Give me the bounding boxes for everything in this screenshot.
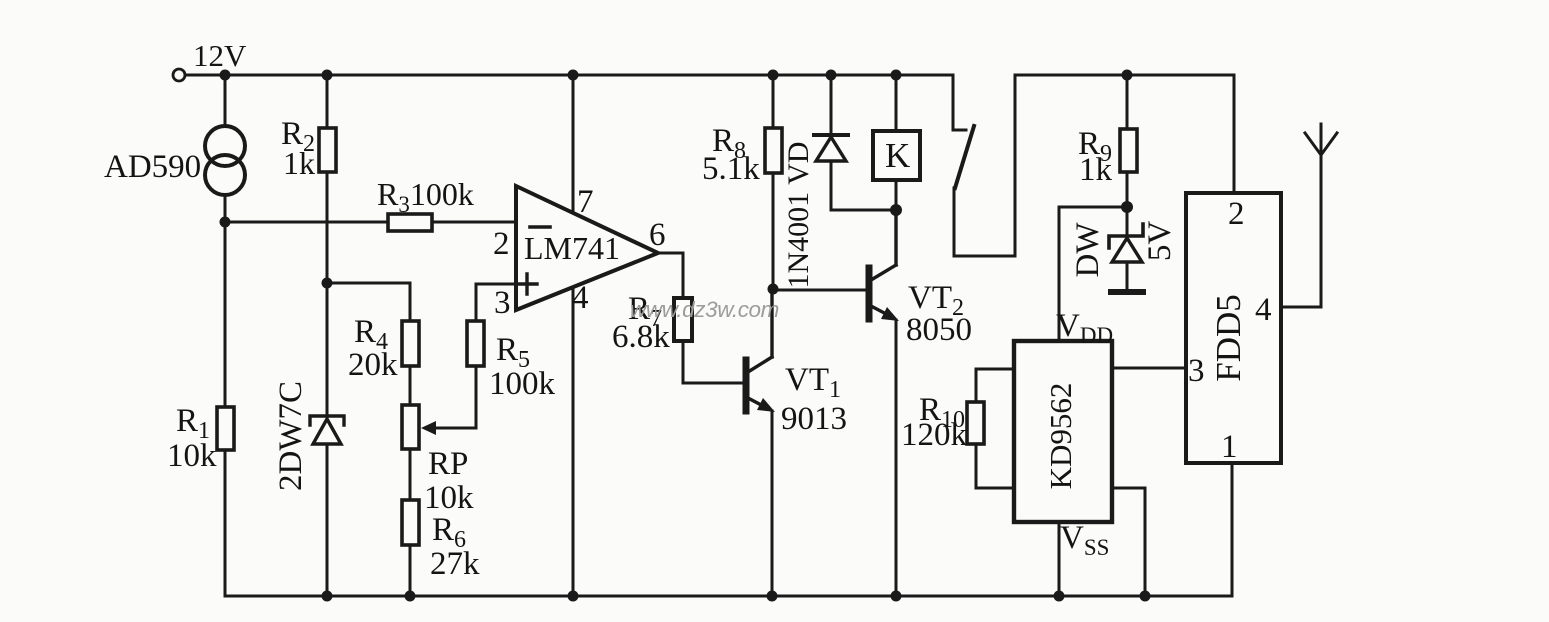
wire DW anode xyxy=(1126,262,1129,290)
node dot rail pin4 xyxy=(568,591,579,602)
wire VSS to bottom rail xyxy=(1112,488,1145,596)
transistor VT2 emitter xyxy=(871,306,890,316)
wire R8 column xyxy=(772,75,775,289)
svg-text:5.1k: 5.1k xyxy=(702,151,760,187)
svg-text:1k: 1k xyxy=(1079,152,1113,188)
transistor VT1 emitter xyxy=(748,398,767,408)
node dot rail VD xyxy=(826,70,837,81)
svg-text:DW: DW xyxy=(1070,222,1106,278)
node dot rail R6 xyxy=(405,591,416,602)
potentiometer RP wiper arrowhead xyxy=(421,421,436,435)
node dot rail K xyxy=(891,70,902,81)
svg-text:2: 2 xyxy=(493,226,510,262)
terminal 12V input xyxy=(173,69,185,81)
svg-text:RP: RP xyxy=(428,446,468,482)
potentiometer RP body xyxy=(402,405,419,449)
svg-text:4: 4 xyxy=(1255,292,1272,328)
antenna mast xyxy=(1320,124,1323,307)
switch contact upper lead xyxy=(953,75,966,130)
wire VT2 base from node xyxy=(773,289,867,292)
antenna arms xyxy=(1305,133,1337,155)
svg-text:5V: 5V xyxy=(1142,221,1178,262)
svg-text:1: 1 xyxy=(1221,429,1238,465)
wire relay K bottom to node C xyxy=(895,180,898,265)
wire node D to VDD xyxy=(1059,207,1127,341)
wire bottom ground rail xyxy=(225,595,1232,598)
node dot rail R2 xyxy=(322,70,333,81)
wire op-amp pin6 output to R7 xyxy=(658,253,683,298)
op-amp plus sign xyxy=(518,274,537,294)
DW anode termination bar xyxy=(1111,289,1143,295)
wire VT2 emitter to bottom rail xyxy=(895,320,898,596)
switch blade xyxy=(955,126,974,188)
node dot R2 bottom xyxy=(322,278,333,289)
svg-text:27k: 27k xyxy=(430,546,480,582)
resistor R2 body xyxy=(319,128,336,172)
svg-text:7: 7 xyxy=(577,184,594,220)
svg-text:4: 4 xyxy=(572,280,589,316)
transistor VT2 emitter arrowhead xyxy=(881,307,899,321)
svg-text:9013: 9013 xyxy=(781,401,847,437)
node dot rail AD590 xyxy=(220,70,231,81)
transistor VT1 emitter arrowhead xyxy=(757,398,775,412)
svg-text:KD9562: KD9562 xyxy=(1043,383,1078,490)
wire op-amp pin4 to bottom rail xyxy=(572,270,575,596)
svg-text:2DW7C: 2DW7C xyxy=(273,381,309,491)
zener diode 2DW7C triangle xyxy=(313,419,341,444)
resistor R4 body xyxy=(402,321,419,366)
zener diode 2DW7C cathode bar xyxy=(310,416,344,425)
wire top +12V rail right segment xyxy=(1015,75,1234,193)
wire R2 / zener column xyxy=(326,75,329,596)
current source AD590 circle upper xyxy=(205,126,245,166)
transistor VT2 collector xyxy=(871,211,896,280)
diode VD 1N4001 triangle xyxy=(816,137,846,161)
resistor R9 body xyxy=(1120,129,1137,172)
transistor VT1 collector xyxy=(748,289,772,372)
node dot rail VT1 xyxy=(767,591,778,602)
wire FDD5 pin1 to bottom rail xyxy=(1231,463,1234,596)
svg-text:6: 6 xyxy=(649,217,666,253)
wire R10 loop xyxy=(976,369,1014,488)
svg-text:AD590: AD590 xyxy=(104,149,201,185)
wire op-amp pin3 to R5 and RP wiper xyxy=(428,284,516,428)
switch lower lead loop xyxy=(954,75,1015,256)
transistor VT1 base bar xyxy=(743,360,750,411)
wire relay K branch xyxy=(895,75,898,131)
node dot R9 bottom xyxy=(1121,201,1133,213)
resistor R8 body xyxy=(765,128,782,173)
svg-text:10k: 10k xyxy=(424,480,474,516)
svg-text:100k: 100k xyxy=(489,366,556,402)
wire node B horizontal (R2 bottom to R4 top) xyxy=(327,282,410,285)
svg-text:10k: 10k xyxy=(167,438,217,474)
relay K coil box xyxy=(873,131,920,180)
node dot R8 bottom xyxy=(768,284,779,295)
wire R9 column xyxy=(1126,75,1129,236)
wire AD590 branch xyxy=(224,75,227,126)
node dot rail zener xyxy=(322,591,333,602)
wire top +12V rail left segment xyxy=(186,74,953,77)
svg-text:20k: 20k xyxy=(348,347,398,383)
node dot rail VSS xyxy=(1140,591,1151,602)
svg-text:R3100k: R3100k xyxy=(377,176,474,217)
wire FDD5 pin4 to antenna xyxy=(1281,306,1321,309)
wire op-amp pin7 to rail xyxy=(572,75,575,230)
zener diode DW cathode bar xyxy=(1109,224,1143,248)
svg-text:1N4001 VD: 1N4001 VD xyxy=(782,142,815,289)
node dot rail KD9562 xyxy=(1054,591,1065,602)
resistor R1 body xyxy=(217,407,234,450)
svg-text:LM741: LM741 xyxy=(524,230,620,266)
svg-text:6.8k: 6.8k xyxy=(612,319,670,355)
svg-text:FDD5: FDD5 xyxy=(1209,294,1248,382)
wire VT1 emitter to bottom rail xyxy=(771,411,774,596)
diode VD 1N4001 cathode bar xyxy=(814,133,848,137)
node dot VD K junction xyxy=(890,204,902,216)
node dot rail R9 xyxy=(1122,70,1133,81)
op-amp minus sign xyxy=(530,225,550,229)
wire R4/RP/R6 column xyxy=(409,283,412,596)
resistor R3 body xyxy=(388,214,432,231)
resistor R5 body xyxy=(467,321,484,366)
resistor R7 body xyxy=(674,298,692,341)
svg-text:8050: 8050 xyxy=(906,312,972,348)
node dot rail pin7 xyxy=(568,70,579,81)
current source AD590 circle lower xyxy=(205,155,245,195)
wire left column through R1 to bottom rail xyxy=(224,195,227,596)
zener diode DW triangle xyxy=(1112,238,1142,262)
IC U2 KD9562 box xyxy=(1014,341,1112,522)
wire R3 to op-amp pin2 xyxy=(432,221,516,224)
svg-text:3: 3 xyxy=(1188,353,1205,389)
wire VD anode to node C xyxy=(831,161,896,210)
svg-text:3: 3 xyxy=(494,285,511,321)
node dot AD590 output xyxy=(220,217,231,228)
wire KD9562 pin3 to FDD5 xyxy=(1112,367,1186,370)
op-amp U1 LM741 triangle xyxy=(516,186,658,310)
transistor VT2 base bar xyxy=(866,268,873,319)
svg-text:12V: 12V xyxy=(193,38,247,73)
wire KD9562 bottom to rail xyxy=(1058,522,1061,596)
node dot rail R8 xyxy=(768,70,779,81)
svg-text:2: 2 xyxy=(1228,196,1245,232)
svg-text:www.dz3w.com: www.dz3w.com xyxy=(630,297,779,322)
svg-text:K: K xyxy=(885,136,910,175)
svg-text:120k: 120k xyxy=(901,417,968,453)
wire R7 to VT1 base xyxy=(683,341,744,383)
resistor R6 body xyxy=(402,500,419,545)
wire node A horizontal (AD590 out to R3) xyxy=(225,221,388,224)
resistor R10 body xyxy=(967,402,984,444)
svg-text:1k: 1k xyxy=(283,145,315,181)
wire diode VD branch xyxy=(830,75,833,135)
IC U3 FDD5 box xyxy=(1186,193,1281,463)
node dot rail VT2 xyxy=(891,591,902,602)
